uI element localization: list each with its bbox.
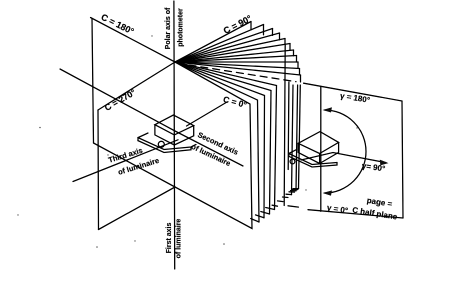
gamma arc 0-180 (325, 110, 367, 193)
dashed bisector line to detail panel (189, 65, 296, 82)
luminaire main box left face (155, 125, 174, 145)
gamma 90 axis line with arrow (301, 153, 386, 163)
fan page upper 10 (C=90 side) (175, 62, 300, 69)
plane C=180 left edge (92, 19, 94, 144)
fan page upper 11 (C=90 side) (175, 62, 301, 75)
fan page lower 1 (C=0 side) (175, 62, 277, 210)
arrowhead gamma 180 (arc top end) (323, 107, 333, 112)
fan page upper 2 (C=90 side) (175, 25, 264, 63)
polar axis / first axis vertical line (173, 1, 176, 269)
second axis of luminaire line (60, 69, 243, 166)
fan page lower 4 (C=0 side) (175, 62, 259, 222)
detail luminaire left face (298, 143, 319, 163)
fan page upper 8 (C=90 side) (175, 56, 297, 63)
plane C=270 left edge (97, 110, 100, 230)
fan page upper 5 (C=90 side) (175, 39, 285, 63)
third axis of luminaire line (73, 140, 178, 182)
plane C=270 top edge (98, 62, 175, 110)
fan page upper 9 (C=90 side) (175, 61, 298, 63)
luminaire main box right face (174, 126, 193, 145)
fan page C=0 (front page) (175, 62, 252, 229)
fan page upper 4 (C=90 side) (175, 33, 280, 62)
plane C=180 bottom edge (94, 143, 176, 187)
detail luminaire base plate (289, 150, 297, 154)
detail panel left edge (320, 87, 322, 212)
detail luminaire right face (320, 142, 339, 163)
dashed bottom line to detail panel (288, 206, 299, 207)
fan page upper 1 (C=90 side) (175, 22, 251, 63)
fan page lower 2 (C=0 side) (175, 62, 271, 214)
detail panel top edge (304, 83, 402, 101)
luminaire base plate (138, 133, 148, 138)
luminaire main box top face (155, 115, 194, 135)
arrowhead gamma 90 (380, 160, 389, 166)
fan page lower 3 (C=0 side) (175, 62, 265, 218)
plane C=180 top edge (91, 18, 176, 63)
fan page upper 6 (C=90 side) (175, 44, 290, 63)
fan page upper 7 (C=90 side) (175, 50, 294, 62)
detail panel right edge (402, 101, 403, 218)
svg-text:photometer: photometer (178, 8, 185, 47)
fan page upper 3 (C=90 side) (175, 29, 273, 63)
svg-text:Polar axis of: Polar axis of (165, 7, 172, 49)
detail panel bottom edge (308, 210, 403, 218)
svg-text:of luminaire: of luminaire (175, 219, 182, 259)
luminaire small circle (158, 141, 164, 147)
detail luminaire top face (298, 132, 338, 154)
scan speckles (39, 127, 41, 129)
svg-text:First axis: First axis (166, 223, 173, 254)
detail luminaire small circle (290, 159, 295, 164)
plane C=270 bottom edge (99, 187, 176, 230)
arrowhead gamma 0 (arc bottom end) (323, 190, 333, 195)
